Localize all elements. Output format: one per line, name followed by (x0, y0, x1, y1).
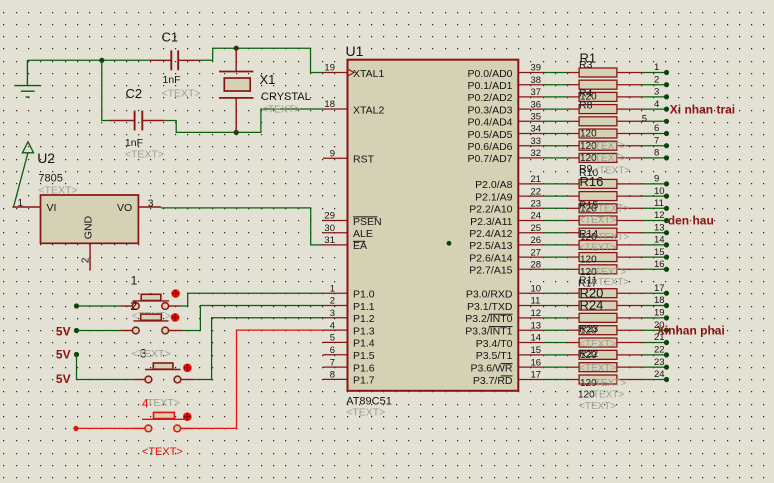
svg-text:39: 39 (531, 63, 542, 74)
svg-text:19: 19 (654, 308, 665, 319)
svg-text:<TEXT>: <TEXT> (162, 88, 201, 100)
svg-text:P0.1/AD1: P0.1/AD1 (468, 80, 513, 92)
resistor R1.10 (row 10) (543, 186, 669, 201)
svg-text:17: 17 (654, 283, 665, 294)
svg-text:<TEXT>: <TEXT> (579, 215, 616, 226)
svg-text:4: 4 (330, 320, 335, 331)
svg-text:R24: R24 (580, 298, 604, 313)
wire button4 left (red) (76, 427, 133, 429)
svg-text:P2.7/A15: P2.7/A15 (469, 265, 512, 277)
button SW3 pins (133, 379, 145, 381)
U1 pin 28 P2.7/A15 (469, 260, 542, 277)
resistor R1.1 (row 1) (543, 62, 669, 77)
resistor R1.20 (row 20) (543, 320, 669, 335)
svg-text:<TEXT>: <TEXT> (132, 348, 171, 360)
pushbutton SW4 (142, 412, 192, 431)
svg-text:1: 1 (654, 62, 659, 73)
svg-text:1nF: 1nF (125, 137, 143, 149)
node junction X1 top (234, 46, 239, 51)
svg-text:18: 18 (654, 295, 665, 306)
svg-text:10: 10 (654, 186, 665, 197)
U2 pin 1 VI (12, 206, 40, 208)
resistor R1.21 (row 21) (543, 332, 669, 347)
pushbutton SW1 (132, 289, 180, 309)
svg-text:<TEXT>: <TEXT> (38, 185, 77, 197)
svg-text:1: 1 (330, 283, 335, 294)
resistor R1.6 (row 6) (543, 123, 669, 138)
svg-text:P2.3/A11: P2.3/A11 (470, 216, 513, 228)
stray junction dot inside U1 (447, 241, 452, 246)
svg-text:25: 25 (531, 223, 542, 234)
node dangling dot button1 left (74, 303, 79, 308)
resistor R1.15 (row 15) (543, 247, 669, 262)
resistor R1.16 (row 16) (543, 259, 669, 274)
svg-text:24: 24 (531, 211, 542, 222)
svg-text:12: 12 (654, 210, 665, 221)
svg-text:21: 21 (531, 174, 542, 185)
svg-text:P3.7/RD: P3.7/RD (473, 375, 513, 387)
U1 pin 32 P0.7/AD7 (468, 148, 543, 165)
svg-text:XTAL1: XTAL1 (353, 68, 384, 80)
U1 pin 7 P1.6 (323, 357, 375, 374)
svg-text:7: 7 (654, 135, 659, 146)
svg-text:32: 32 (531, 148, 542, 159)
svg-text:23: 23 (654, 357, 665, 368)
wire C1 right to top rail (200, 48, 323, 72)
svg-text:3: 3 (148, 199, 154, 210)
svg-text:3: 3 (330, 308, 335, 319)
svg-text:X1: X1 (260, 72, 276, 87)
svg-text:<TEXT>: <TEXT> (579, 242, 616, 253)
U1 pin 24 P2.3/A11 (470, 211, 543, 228)
svg-text:15: 15 (531, 345, 542, 356)
U1 pin 25 P2.4/A12 (469, 223, 542, 240)
U1 pin 5 P1.4 (323, 333, 375, 350)
U1 pin 14 P3.4/T0 (476, 333, 543, 350)
svg-text:<TEXT>: <TEXT> (589, 378, 626, 389)
button SW1 pins (121, 305, 133, 307)
resistor R1.22 (row 22) (543, 345, 669, 360)
resistor R1.18 (row 18) (543, 295, 669, 310)
svg-text:2: 2 (654, 74, 659, 85)
svg-text:13: 13 (531, 320, 542, 331)
svg-text:P0.2/AD2: P0.2/AD2 (468, 92, 513, 104)
svg-text:P2.0/A8: P2.0/A8 (475, 179, 513, 191)
pushbutton SW2 (132, 313, 179, 334)
svg-text:P1.3: P1.3 (353, 325, 375, 337)
U1 pin 2 P1.1 (323, 296, 375, 313)
svg-text:P0.4/AD4: P0.4/AD4 (468, 117, 513, 129)
svg-text:18: 18 (324, 99, 335, 110)
svg-text:P3.0/RXD: P3.0/RXD (466, 289, 513, 301)
svg-text:U1: U1 (346, 43, 364, 59)
node junction X1 bottom (234, 130, 239, 135)
U1 pin 30 ALE (323, 223, 373, 240)
svg-text:23: 23 (531, 199, 542, 210)
pushbutton SW3 (145, 363, 192, 383)
svg-text:P1.6: P1.6 (353, 362, 375, 374)
svg-text:38: 38 (531, 75, 542, 86)
svg-text:<TEXT>: <TEXT> (592, 204, 629, 215)
svg-text:16: 16 (531, 357, 542, 368)
svg-text:120: 120 (580, 255, 597, 266)
svg-text:CRYSTAL: CRYSTAL (261, 91, 311, 103)
svg-text:1: 1 (18, 198, 24, 209)
power terminal arrow (input to U2) (14, 142, 34, 207)
resistor R1.13 (row 13) (543, 222, 669, 237)
resistor R1.17 (row 17) (543, 283, 669, 298)
svg-text:<TEXT>: <TEXT> (587, 390, 624, 401)
svg-text:<TEXT>: <TEXT> (262, 104, 301, 116)
svg-text:19: 19 (324, 63, 335, 74)
svg-text:14: 14 (654, 235, 665, 246)
svg-text:P3.1/TXD: P3.1/TXD (467, 301, 513, 313)
svg-text:5: 5 (642, 114, 647, 125)
svg-text:13: 13 (654, 222, 665, 233)
svg-text:22: 22 (531, 186, 542, 197)
svg-text:<TEXT>: <TEXT> (125, 149, 164, 161)
svg-text:PSEN: PSEN (353, 216, 382, 228)
svg-text:29: 29 (324, 211, 335, 222)
button SW2 pins (121, 330, 133, 332)
wire 5V-dot to button1 (green) (77, 305, 121, 307)
svg-text:C2: C2 (126, 86, 143, 101)
svg-text:<TEXT>: <TEXT> (589, 141, 626, 152)
svg-text:27: 27 (531, 247, 542, 258)
svg-text:10: 10 (531, 283, 542, 294)
U1 pin 10 P3.0/RXD (466, 283, 543, 300)
U1 pin 9 RST (323, 148, 375, 165)
svg-text:24: 24 (654, 369, 665, 380)
svg-text:den hau: den hau (668, 214, 714, 228)
resistor R1.24 (row 24) (543, 369, 669, 384)
svg-text:4: 4 (654, 99, 659, 110)
svg-text:P2.1/A9: P2.1/A9 (475, 191, 513, 203)
capacitor C1 (150, 50, 201, 70)
resistor R1.9 (row 9) (543, 174, 669, 189)
svg-text:37: 37 (531, 87, 542, 98)
svg-text:P2.6/A14: P2.6/A14 (469, 252, 512, 264)
U1 pin 13 P3.3/INT1 (465, 320, 542, 337)
svg-text:P0.5/AD5: P0.5/AD5 (468, 129, 513, 141)
svg-text:6: 6 (330, 345, 335, 356)
svg-text:Xi nhan trai: Xi nhan trai (670, 102, 735, 116)
resistor R1.5 (row 5) (543, 114, 669, 126)
svg-text:<TEXT>: <TEXT> (589, 153, 626, 164)
U1 pin 19 XTAL1 (323, 63, 385, 80)
svg-text:XTAL2: XTAL2 (353, 104, 384, 116)
U1 pin 4 P1.3 (323, 320, 375, 337)
svg-text:1: 1 (131, 273, 138, 287)
svg-text:6: 6 (654, 123, 659, 134)
svg-text:Xinhan phai: Xinhan phai (657, 324, 725, 338)
svg-text:P1.4: P1.4 (353, 338, 375, 350)
svg-text:TEXT>: TEXT> (147, 397, 180, 409)
crystal X1 (219, 48, 253, 132)
svg-text:P1.5: P1.5 (353, 350, 375, 362)
U2 pin 3 VO (138, 206, 161, 208)
U1 pin 15 P3.5/T1 (476, 345, 543, 362)
wire 5V to button2 (77, 330, 121, 332)
resistor R1.4 (row 4) (543, 99, 669, 114)
U1 pin 6 P1.5 (323, 345, 375, 362)
svg-text:5V: 5V (56, 372, 71, 386)
svg-text:7: 7 (330, 357, 335, 368)
wire 5V down to button3 (77, 355, 133, 380)
svg-text:P2.4/A12: P2.4/A12 (469, 228, 512, 240)
U1 pin 18 XTAL2 (323, 99, 385, 116)
svg-text:5: 5 (330, 333, 335, 344)
resistor R1.8 (row 8) (543, 148, 669, 163)
ground (14, 60, 40, 97)
node 5V terminal mid (74, 352, 79, 357)
svg-text:P0.6/AD6: P0.6/AD6 (468, 141, 513, 153)
U1 pin 3 P1.2 (323, 308, 375, 325)
svg-text:7805: 7805 (38, 172, 62, 184)
svg-text:GND: GND (83, 215, 95, 239)
node 5V terminal button2 (74, 328, 79, 333)
svg-text:33: 33 (531, 136, 542, 147)
resistor R1.19 (row 19) (543, 308, 669, 323)
resistor R1.3 (row 3) (543, 87, 669, 102)
U1 pin 22 P2.1/A9 (475, 186, 543, 203)
wire button3 to P1.2 (193, 318, 323, 380)
svg-text:U2: U2 (37, 150, 55, 166)
wire C2 right to bottom rail (165, 109, 323, 132)
svg-text:3: 3 (654, 87, 659, 98)
svg-text:VO: VO (117, 202, 132, 214)
svg-text:P0.3/AD3: P0.3/AD3 (468, 104, 513, 116)
svg-text:<TEXT>: <TEXT> (346, 407, 385, 419)
svg-text:VI: VI (47, 202, 57, 214)
wire button4 to P1.3 (red) (193, 330, 323, 428)
svg-text:P3.3/INT1: P3.3/INT1 (465, 325, 512, 337)
wire button1 to P1.0 (181, 293, 324, 306)
svg-text:2: 2 (81, 257, 92, 263)
U1 pin 33 P0.6/AD6 (468, 136, 543, 153)
svg-text:1nF: 1nF (163, 74, 181, 86)
svg-text:P1.0: P1.0 (353, 289, 375, 301)
svg-text:17: 17 (531, 370, 542, 381)
U1 pin 8 P1.7 (323, 370, 375, 387)
svg-text:<TEXT>: <TEXT> (579, 401, 616, 412)
U1 pin 29 PSEN (323, 211, 382, 228)
svg-text:12: 12 (531, 308, 542, 319)
U2 pin 2 GND (89, 243, 91, 270)
svg-text:11: 11 (531, 296, 541, 307)
svg-text:<TEXT>: <TEXT> (142, 446, 183, 458)
svg-text:P0.0/AD0: P0.0/AD0 (468, 68, 513, 80)
svg-text:28: 28 (531, 260, 542, 271)
mcu U1 body (348, 60, 519, 391)
U1 pin 16 P3.6/WR (470, 357, 542, 374)
svg-text:P2.2/A10: P2.2/A10 (469, 204, 512, 216)
U1 pin 37 P0.2/AD2 (468, 87, 543, 104)
U1 pin 12 P3.2/INT0 (465, 308, 542, 325)
svg-text:P1.7: P1.7 (353, 375, 375, 387)
svg-text:P3.6/WR: P3.6/WR (470, 362, 512, 374)
resistor R1.7 (row 7) (543, 135, 669, 150)
svg-text:<TEXT>: <TEXT> (579, 363, 616, 374)
wire U2 VO to EA (161, 208, 323, 245)
resistor R1.2 (row 2) (543, 74, 669, 89)
svg-text:35: 35 (531, 112, 542, 123)
wire button2 to P1.1 (182, 306, 323, 331)
svg-text:36: 36 (531, 99, 542, 110)
U1 pin 21 P2.0/A8 (475, 174, 543, 191)
svg-text:8: 8 (330, 370, 335, 381)
svg-text:EA: EA (353, 240, 367, 252)
svg-text:34: 34 (531, 124, 542, 135)
U1 pin 36 P0.3/AD3 (468, 99, 543, 116)
U1 pin 31 EA (323, 235, 367, 252)
U1 pin 38 P0.1/AD1 (468, 75, 543, 92)
svg-text:RST: RST (353, 154, 375, 166)
svg-text:31: 31 (324, 235, 335, 246)
svg-text:P1.1: P1.1 (353, 301, 375, 313)
svg-text:120: 120 (580, 350, 597, 361)
U1 pin 23 P2.2/A10 (469, 199, 542, 216)
svg-text:P2.5/A13: P2.5/A13 (469, 240, 512, 252)
svg-text:26: 26 (531, 235, 542, 246)
capacitor C2 (109, 111, 164, 131)
svg-text:9: 9 (330, 148, 335, 159)
button SW4 pins (red) (133, 427, 145, 429)
U1 pin 34 P0.5/AD5 (468, 124, 543, 141)
svg-text:2: 2 (330, 296, 335, 307)
svg-text:P1.2: P1.2 (353, 313, 375, 325)
U1 pin 17 P3.7/RD (473, 370, 543, 387)
regulator U2 body (41, 195, 139, 243)
svg-text:C1: C1 (162, 30, 179, 45)
resistor R1.23 (row 23) (543, 357, 669, 372)
svg-text:22: 22 (654, 345, 665, 356)
svg-text:P3.4/T0: P3.4/T0 (476, 338, 513, 350)
resistor R1.12 (row 12) (543, 210, 669, 225)
wire gnd to C1 (net XTAL1) (27, 59, 149, 61)
svg-text:11: 11 (654, 198, 664, 209)
U1 pin 1 P1.0 (323, 283, 375, 300)
node red dangling dot button4 left (73, 426, 78, 431)
svg-text:14: 14 (531, 333, 542, 344)
svg-text:P3.5/T1: P3.5/T1 (476, 350, 513, 362)
svg-text:120: 120 (580, 326, 597, 337)
U1 pin 35 P0.4/AD4 (468, 112, 543, 129)
svg-text:8: 8 (654, 148, 659, 159)
U1 pin 27 P2.6/A14 (469, 247, 542, 264)
wire junction down to C2 (102, 60, 110, 120)
svg-text:ALE: ALE (353, 228, 373, 240)
U1 clock input chevron (349, 70, 354, 76)
svg-text:P3.2/INT0: P3.2/INT0 (465, 313, 512, 325)
resistor R1.14 (row 14) (543, 235, 669, 250)
node junction at C2 branch (99, 58, 104, 63)
svg-text:R3: R3 (579, 59, 593, 71)
svg-text:5V: 5V (56, 325, 71, 339)
svg-text:15: 15 (654, 247, 665, 258)
svg-text:R16: R16 (580, 174, 604, 189)
svg-text:R8: R8 (579, 100, 593, 112)
svg-text:5V: 5V (56, 348, 71, 362)
svg-text:30: 30 (324, 223, 335, 234)
svg-text:P0.7/AD7: P0.7/AD7 (468, 153, 513, 165)
U1 pin 26 P2.5/A13 (469, 235, 542, 252)
U1 pin 39 P0.0/AD0 (468, 63, 543, 80)
resistor R1.11 (row 11) (543, 198, 669, 213)
U1 pin 11 P3.1/TXD (467, 296, 543, 313)
svg-text:16: 16 (654, 259, 665, 270)
svg-text:9: 9 (654, 174, 659, 185)
svg-text:120: 120 (580, 129, 597, 140)
